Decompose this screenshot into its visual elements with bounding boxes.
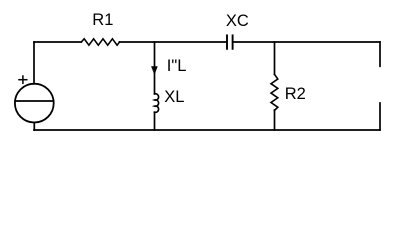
svg-text:XC: XC — [226, 12, 249, 30]
resistor R1 — [81, 39, 119, 45]
wire source bottom stub — [33, 123, 35, 131]
wire left rail (top rail to source) — [33, 42, 35, 84]
svg-text:XL: XL — [164, 88, 184, 106]
wire middle branch upper segment — [154, 42, 156, 94]
svg-text:R1: R1 — [92, 11, 113, 29]
svg-text:I"L: I"L — [167, 57, 187, 75]
wire top rail left segment — [34, 41, 81, 43]
inductor XL — [155, 94, 159, 113]
wire bottom rail — [34, 129, 380, 131]
wire right branch lower segment (open terminal) — [379, 103, 381, 130]
wire right branch upper segment (open terminal) — [379, 42, 381, 66]
wire top rail right segment (XC to top-right corner) — [234, 41, 380, 43]
wire R2 branch lower segment — [274, 110, 276, 130]
wire top rail middle segment (R1 to XC) — [120, 41, 226, 43]
+ polarity mark — [19, 76, 27, 83]
current arrow I"L — [152, 67, 158, 75]
voltage source — [15, 84, 54, 123]
wire middle branch lower segment — [154, 112, 156, 130]
svg-text:R2: R2 — [285, 85, 306, 103]
resistor R2 — [271, 74, 278, 110]
wire R2 branch upper segment — [274, 42, 276, 74]
capacitor XC — [227, 35, 233, 48]
